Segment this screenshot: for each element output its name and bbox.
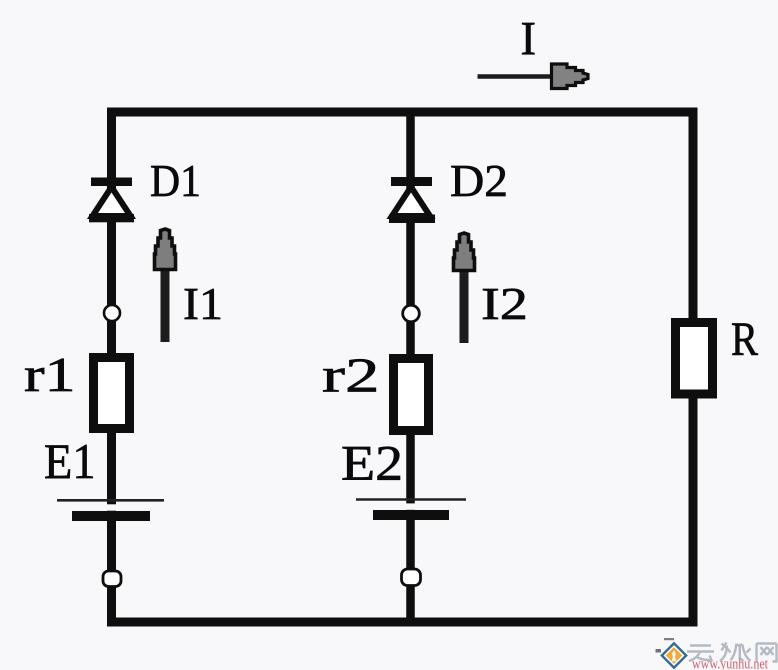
svg-text:R: R (731, 314, 758, 366)
svg-text:r2: r2 (322, 348, 380, 403)
svg-text:I2: I2 (481, 278, 528, 329)
svg-text:D2: D2 (450, 155, 508, 206)
svg-text:I: I (521, 14, 537, 66)
svg-text:D1: D1 (150, 155, 201, 206)
svg-text:I1: I1 (183, 278, 223, 329)
svg-text:r1: r1 (24, 347, 76, 402)
svg-text:E2: E2 (341, 435, 403, 491)
svg-text:www.yunhu.net: www.yunhu.net (692, 657, 768, 670)
svg-text:E1: E1 (44, 433, 96, 489)
